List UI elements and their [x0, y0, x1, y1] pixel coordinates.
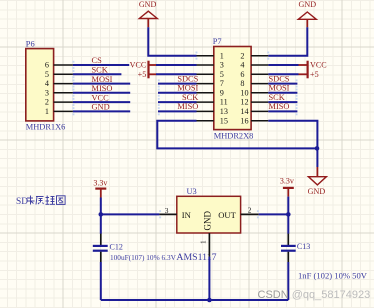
svg-text:CS: CS — [92, 56, 103, 65]
svg-text:MISO: MISO — [177, 102, 198, 111]
svg-text:MOSI: MOSI — [92, 75, 113, 84]
P7 pin 4 — [240, 61, 268, 70]
svg-text:P6: P6 — [26, 40, 35, 49]
wire GND to P7 pin 2 — [267, 27, 307, 59]
P7 pin 10 — [240, 88, 268, 97]
P7 pin 1 — [197, 51, 224, 60]
svg-text:4: 4 — [240, 61, 244, 70]
svg-text:VCC: VCC — [310, 61, 327, 70]
wire net VCC from P6 pin 2 — [73, 101, 130, 103]
P6 pin 3 — [45, 88, 74, 97]
svg-text:11: 11 — [220, 98, 228, 107]
wire to U3 pin 3 — [101, 210, 161, 218]
svg-text:5: 5 — [45, 70, 49, 79]
svg-text:13: 13 — [220, 107, 228, 116]
wire net CS from P6 pin 6 — [73, 64, 129, 66]
power port 3.3v (left) — [93, 178, 107, 197]
P7 pin 12 — [240, 98, 268, 107]
svg-text:SDCS: SDCS — [269, 74, 290, 83]
power port GND (top left) — [139, 0, 157, 27]
power port GND (middle right) — [308, 167, 327, 196]
svg-text:U3: U3 — [187, 187, 197, 196]
svg-text:+5: +5 — [310, 70, 319, 79]
svg-text:GND: GND — [92, 103, 110, 112]
connector P6 body — [26, 49, 54, 121]
svg-text:16: 16 — [240, 116, 248, 125]
junction at U3 output — [286, 212, 291, 217]
wire net SDCS at P7 pin 8 (right) — [268, 79, 297, 87]
hanzi ka — [27, 196, 35, 205]
wire net MISO at P7 pin 14 (right) — [268, 107, 297, 115]
svg-text:1: 1 — [220, 51, 224, 60]
svg-text:SDCS: SDCS — [177, 74, 198, 83]
hanzi li — [46, 196, 56, 205]
svg-text:10: 10 — [240, 88, 248, 97]
P6 pin 2 — [45, 98, 74, 107]
power port VCC +5 (left) — [130, 61, 156, 79]
svg-text:14: 14 — [240, 107, 248, 116]
wire net SCK at P7 pin 11 (left) — [158, 98, 197, 106]
wire net MOSI at P7 pin 9 (left) — [158, 89, 197, 97]
wire net SDCS at P7 pin 7 (left) — [158, 79, 197, 87]
U3 pin 1 — [199, 233, 210, 257]
wire GND net from P7 pin 15 — [157, 121, 317, 149]
wire U3 pin 2 to C13 — [257, 210, 288, 218]
P7 pin 7 — [197, 79, 224, 88]
wire 3.3v rail down to C12 — [100, 198, 102, 234]
svg-text:VCC: VCC — [92, 93, 110, 102]
U3 pin 2 — [241, 206, 259, 215]
P7 pin 9 — [197, 88, 224, 97]
svg-text:MOSI: MOSI — [177, 84, 198, 93]
svg-text:SCK: SCK — [92, 66, 108, 75]
wire net SCK from P6 pin 5 — [73, 73, 122, 75]
wire GND to P7 pin 1 — [148, 27, 197, 59]
svg-text:2: 2 — [45, 98, 49, 107]
P7 pin 6 — [240, 70, 268, 79]
svg-text:OUT: OUT — [218, 210, 236, 220]
svg-text:GND: GND — [299, 0, 317, 9]
P6 pin 4 — [45, 79, 74, 88]
svg-text:3: 3 — [165, 206, 169, 215]
svg-text:100uF(107) 10% 6.3V: 100uF(107) 10% 6.3V — [110, 253, 177, 262]
wire C12 to ground rail — [100, 262, 102, 300]
svg-text:MHDR2X8: MHDR2X8 — [214, 132, 254, 141]
wire VCC to P7 pin 5 — [156, 73, 197, 75]
P7 pin 14 — [240, 107, 268, 116]
svg-text:MISO: MISO — [92, 84, 113, 93]
P6 pin 1 — [45, 107, 74, 116]
P7 pin 13 — [197, 107, 228, 116]
P7 pin 15 — [197, 116, 228, 125]
wire U3 pin 1 to ground rail — [208, 257, 210, 300]
svg-text:5: 5 — [220, 70, 224, 79]
svg-text:9: 9 — [220, 88, 224, 97]
wire net SCK at P7 pin 12 (right) — [268, 98, 297, 106]
svg-text:SCK: SCK — [269, 93, 285, 102]
svg-text:3.3v: 3.3v — [93, 178, 107, 187]
capacitor C13 — [281, 234, 296, 262]
P7 pin 8 — [240, 79, 268, 88]
wire net MOSI at P7 pin 10 (right) — [268, 89, 297, 97]
power port 3.3v (right) — [280, 176, 294, 196]
svg-text:2: 2 — [248, 206, 252, 215]
wire net MOSI from P6 pin 4 — [73, 83, 130, 85]
connector P7 body — [214, 47, 251, 130]
svg-text:MHDR1X6: MHDR1X6 — [26, 123, 66, 132]
svg-text:AMS1117: AMS1117 — [176, 252, 216, 263]
svg-text:CSDN @qq_58174923: CSDN @qq_58174923 — [258, 289, 371, 301]
svg-text:GND: GND — [203, 211, 213, 231]
svg-text:1: 1 — [199, 240, 208, 244]
svg-text:P7: P7 — [213, 37, 222, 46]
svg-text:3.3v: 3.3v — [280, 176, 294, 185]
power port VCC +5 (right) — [299, 61, 327, 79]
junction at U3 input — [99, 212, 104, 217]
U3 pin 3 — [159, 206, 176, 215]
svg-text:7: 7 — [220, 79, 224, 88]
svg-text:SD: SD — [16, 197, 28, 207]
wire VCC to P7 pin 4 — [268, 64, 298, 66]
P7 pin 11 — [197, 98, 228, 107]
svg-text:C12: C12 — [110, 243, 123, 252]
svg-text:2: 2 — [240, 51, 244, 60]
svg-text:6: 6 — [45, 61, 49, 70]
svg-text:MISO: MISO — [269, 102, 290, 111]
P6 pin 6 — [45, 61, 74, 70]
svg-text:8: 8 — [240, 79, 244, 88]
regulator U3 body — [177, 196, 241, 233]
svg-text:1nF (102) 10% 50V: 1nF (102) 10% 50V — [298, 271, 368, 281]
wire VCC to P7 pin 3 — [156, 64, 197, 66]
junction U3 ground — [207, 298, 212, 303]
svg-text:VCC: VCC — [130, 61, 147, 70]
svg-text:12: 12 — [240, 98, 248, 107]
title SD card schematic — [16, 197, 28, 207]
P6 pin 5 — [45, 70, 74, 79]
wire net GND from P6 pin 1 — [73, 110, 130, 112]
svg-text:C13: C13 — [297, 242, 310, 251]
P7 pin 3 — [197, 61, 224, 70]
power port GND (top right) — [298, 0, 316, 27]
wire GND net from P7 pin 16 — [268, 121, 317, 167]
svg-text:SCK: SCK — [182, 93, 198, 102]
wire net MISO at P7 pin 13 (left) — [158, 107, 197, 115]
P7 pin 16 — [240, 116, 268, 125]
svg-text:IN: IN — [182, 210, 192, 220]
hanzi tu — [57, 196, 66, 205]
wire 3.3v to C13 — [287, 197, 289, 234]
wire ground rail bottom — [101, 299, 288, 301]
junction GND net — [315, 146, 320, 151]
svg-text:GND: GND — [139, 0, 157, 9]
svg-text:4: 4 — [45, 79, 49, 88]
svg-text:15: 15 — [220, 116, 228, 125]
svg-text:3: 3 — [45, 88, 49, 97]
svg-text:1: 1 — [45, 107, 49, 116]
svg-text:6: 6 — [240, 70, 244, 79]
svg-text:+5: +5 — [138, 70, 147, 79]
svg-text:3: 3 — [220, 61, 224, 70]
P7 pin 2 — [240, 51, 268, 60]
wire VCC to P7 pin 6 — [268, 73, 298, 75]
wire net MISO from P6 pin 3 — [73, 92, 130, 94]
P7 pin 5 — [197, 70, 224, 79]
wire C13 to ground rail — [287, 262, 289, 300]
hanzi yuan — [36, 197, 44, 205]
svg-text:GND: GND — [308, 187, 326, 196]
svg-text:MOSI: MOSI — [269, 84, 290, 93]
capacitor C12 — [93, 234, 108, 262]
